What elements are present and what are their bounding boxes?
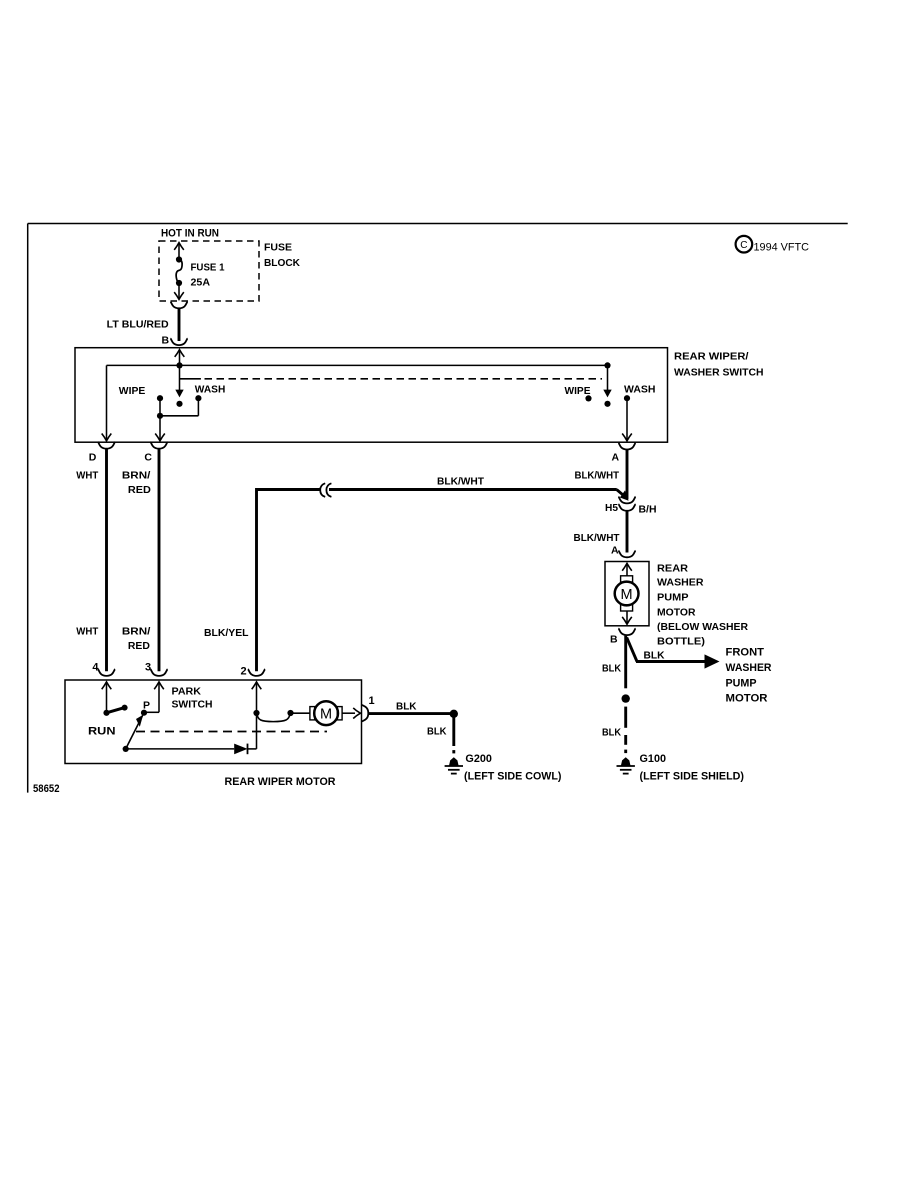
svg-text:RED: RED xyxy=(128,484,151,496)
svg-text:C: C xyxy=(740,240,747,251)
svg-text:BLK: BLK xyxy=(602,727,621,739)
svg-text:PUMP: PUMP xyxy=(726,678,757,690)
svg-text:WASH: WASH xyxy=(624,384,656,396)
svg-text:B: B xyxy=(162,335,170,347)
svg-text:2: 2 xyxy=(241,666,247,678)
svg-text:FUSE 1: FUSE 1 xyxy=(191,262,225,274)
svg-text:WASHER: WASHER xyxy=(657,577,704,589)
svg-text:A: A xyxy=(612,452,620,464)
svg-text:P: P xyxy=(143,700,150,712)
svg-text:BLK/WHT: BLK/WHT xyxy=(575,470,620,482)
svg-text:BLK/YEL: BLK/YEL xyxy=(204,627,249,639)
svg-text:REAR: REAR xyxy=(657,563,688,575)
svg-text:D: D xyxy=(89,452,97,464)
svg-text:M: M xyxy=(621,587,633,603)
svg-text:BLK/WHT: BLK/WHT xyxy=(437,475,485,487)
svg-text:BOTTLE): BOTTLE) xyxy=(657,636,705,648)
svg-text:BLK: BLK xyxy=(427,726,447,738)
svg-text:4: 4 xyxy=(92,661,99,673)
svg-text:BLOCK: BLOCK xyxy=(264,257,300,269)
svg-text:3: 3 xyxy=(145,661,151,673)
svg-text:(LEFT SIDE COWL): (LEFT SIDE COWL) xyxy=(464,771,562,783)
svg-text:G100: G100 xyxy=(640,753,667,765)
svg-text:WASHER SWITCH: WASHER SWITCH xyxy=(674,367,764,379)
svg-text:G200: G200 xyxy=(465,753,492,765)
svg-text:58652: 58652 xyxy=(33,783,60,795)
svg-text:WASH: WASH xyxy=(195,384,226,396)
svg-text:REAR WIPER MOTOR: REAR WIPER MOTOR xyxy=(225,776,336,788)
svg-text:RUN: RUN xyxy=(88,726,116,738)
svg-text:BLK: BLK xyxy=(644,650,665,662)
svg-text:A: A xyxy=(611,545,619,557)
svg-text:BLK/WHT: BLK/WHT xyxy=(574,532,621,544)
svg-text:FRONT: FRONT xyxy=(726,647,765,659)
svg-text:B: B xyxy=(610,634,618,646)
svg-text:C: C xyxy=(144,451,152,463)
svg-text:PARK: PARK xyxy=(172,686,202,698)
svg-text:WHT: WHT xyxy=(76,626,99,638)
svg-text:WIPE: WIPE xyxy=(565,385,591,397)
svg-text:1: 1 xyxy=(369,695,375,707)
svg-text:25A: 25A xyxy=(191,277,211,289)
svg-text:WIPE: WIPE xyxy=(119,385,146,397)
svg-text:1994 VFTC: 1994 VFTC xyxy=(754,242,810,254)
svg-text:PUMP: PUMP xyxy=(657,592,689,604)
svg-text:REAR WIPER/: REAR WIPER/ xyxy=(674,351,749,363)
svg-text:FUSE: FUSE xyxy=(264,242,292,254)
svg-text:BRN/: BRN/ xyxy=(122,470,151,482)
svg-text:MOTOR: MOTOR xyxy=(726,693,768,705)
svg-text:BRN/: BRN/ xyxy=(122,626,151,638)
svg-text:LT BLU/RED: LT BLU/RED xyxy=(107,319,169,331)
svg-text:WASHER: WASHER xyxy=(726,662,772,674)
svg-text:RED: RED xyxy=(128,640,150,652)
svg-text:BLK: BLK xyxy=(602,663,621,675)
svg-text:(BELOW WASHER: (BELOW WASHER xyxy=(657,621,748,633)
svg-text:MOTOR: MOTOR xyxy=(657,607,696,619)
svg-text:BLK: BLK xyxy=(396,701,417,713)
svg-text:B/H: B/H xyxy=(639,504,657,516)
svg-text:SWITCH: SWITCH xyxy=(172,698,213,710)
svg-text:M: M xyxy=(320,707,332,723)
svg-text:H5: H5 xyxy=(605,502,618,514)
svg-text:HOT IN RUN: HOT IN RUN xyxy=(161,228,219,240)
svg-text:(LEFT SIDE SHIELD): (LEFT SIDE SHIELD) xyxy=(640,771,745,783)
svg-text:WHT: WHT xyxy=(76,470,99,482)
